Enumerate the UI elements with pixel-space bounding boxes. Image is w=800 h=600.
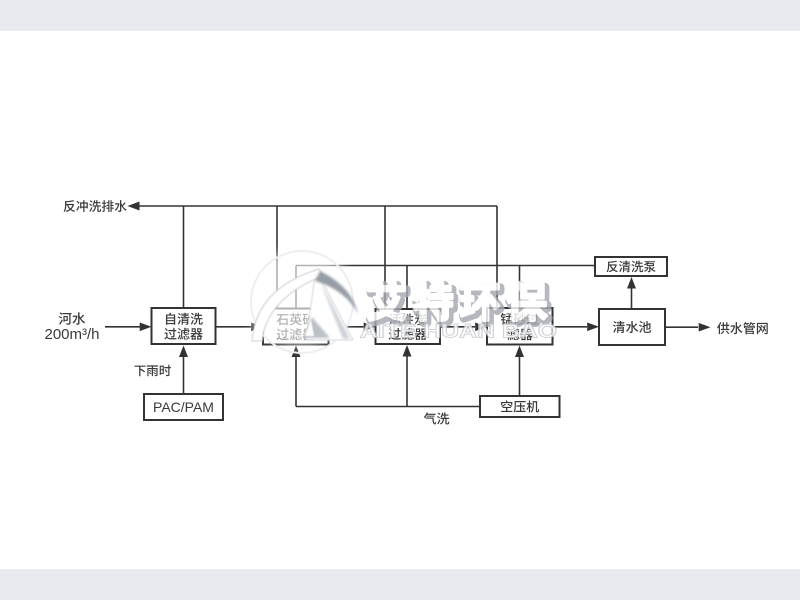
box D1 PAC/PAM	[144, 394, 223, 420]
wire: drain riser from U1	[183, 206, 185, 308]
wire: backwash drain line	[138, 205, 497, 207]
box U4 锰砂过滤器	[487, 308, 553, 345]
box U2 石英砂过滤器	[263, 309, 329, 345]
box C1 空压机	[480, 396, 560, 417]
watermark logo crossbar highlight	[305, 320, 314, 336]
node: label 气洗	[424, 412, 449, 424]
watermark logo A crossbar	[303, 317, 330, 338]
wire: drain riser from U2	[276, 206, 278, 309]
node: outlet label 供水管网	[717, 322, 768, 334]
wire: pump drop to U4	[519, 266, 521, 309]
watermark text 艾特环保	[368, 283, 549, 323]
watermark logo A leg	[306, 270, 353, 340]
wire: air riser to U3	[406, 356, 408, 407]
watermark logo glow	[244, 250, 356, 346]
box U5 清水池	[599, 309, 665, 345]
box U1 自清洗过滤器	[152, 308, 216, 344]
wire: inlet to U1	[105, 326, 140, 328]
svg-text:200m³/h: 200m³/h	[44, 326, 99, 343]
wire: U2 to U3	[329, 326, 364, 328]
watermark logo leg shading	[319, 279, 350, 339]
wire: backwash pump line	[296, 265, 595, 267]
wire: air riser to U2	[295, 357, 297, 407]
arrow to drain outlet	[128, 202, 140, 211]
watermark logo swoosh blade	[252, 269, 323, 341]
watermark logo swoosh shadow	[315, 271, 358, 314]
top band	[0, 0, 800, 31]
watermark logo ring	[251, 251, 353, 353]
wire: pump drop to U3	[406, 266, 408, 310]
svg-text:AITE HUAN BAO: AITE HUAN BAO	[360, 322, 557, 343]
wire: U5 to outlet	[665, 326, 698, 328]
wire: pump drop to U2	[295, 266, 297, 309]
wire: U3 to U4	[440, 326, 475, 328]
node: inlet label 河水	[59, 312, 85, 325]
node: drain label 反冲洗排水	[64, 200, 127, 212]
wire: U4 to U5	[553, 326, 588, 328]
wire: U5 to P1	[631, 288, 633, 309]
wire: drain riser from U3	[384, 206, 386, 309]
wire: air wash header	[296, 406, 480, 408]
node: label 下雨时	[134, 365, 170, 377]
wire: drain riser from U4	[496, 206, 498, 308]
bottom band	[0, 569, 800, 600]
wire: air riser to U4	[519, 357, 521, 396]
box U3 活性炭过滤器	[376, 309, 441, 344]
svg-text:PAC/PAM: PAC/PAM	[153, 399, 214, 415]
wire: U1 to U2	[216, 326, 252, 328]
box P1 反清洗泵	[595, 257, 667, 276]
wire: PAC/PAM to U1	[183, 357, 185, 395]
